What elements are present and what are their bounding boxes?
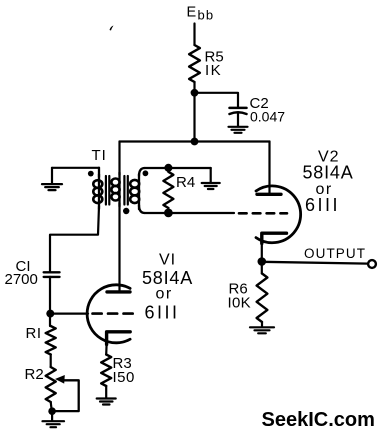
capacitor C1 — [44, 271, 60, 273]
ground below R6 — [250, 326, 274, 328]
node junction feed bus — [191, 138, 199, 146]
wire right winding bottom to V2 grid — [145, 212, 234, 214]
T1 left winding polarity dot — [88, 171, 94, 177]
node grid junction — [46, 310, 54, 318]
V2 cathode — [262, 233, 287, 243]
potentiometer R2 — [46, 367, 56, 402]
ground below R3 — [97, 397, 116, 399]
svg-text:E: E — [187, 5, 197, 21]
R2 wiper arrow — [52, 380, 79, 411]
svg-text:or: or — [156, 286, 173, 303]
wire V1 cathode to R3 — [105, 345, 108, 355]
V1 cathode — [107, 332, 131, 345]
svg-text:58I4A: 58I4A — [303, 163, 354, 183]
T1 right winding polarity dot — [143, 170, 149, 176]
resistor R1 — [46, 326, 56, 355]
svg-text:I50: I50 — [113, 369, 135, 386]
svg-text:RI: RI — [26, 325, 42, 342]
resistor R5 — [189, 45, 200, 82]
stray tick mark — [110, 26, 114, 31]
svg-text:VI: VI — [159, 252, 176, 269]
op V2 envelope — [256, 186, 301, 243]
svg-text:I0K: I0K — [228, 295, 251, 312]
terminal OUTPUT — [368, 260, 376, 268]
wire bus down to V2 plate — [268, 142, 270, 194]
ground right of R4 — [210, 168, 212, 183]
wire C1 to grid junction — [49, 277, 51, 326]
svg-text:bb: bb — [198, 8, 215, 23]
ground below C2 — [229, 126, 248, 128]
wire feed bus horizontal — [120, 140, 270, 142]
wire bus down to T1 primary — [118, 142, 120, 176]
wire R5 to junction — [193, 82, 195, 142]
wire R1 to R2 — [50, 355, 52, 368]
wire V2 cathode down — [261, 244, 263, 274]
svg-text:R4: R4 — [176, 174, 195, 191]
V1 plate — [107, 290, 130, 293]
T1 left secondary winding — [98, 168, 100, 177]
wire right winding top to ground — [145, 167, 211, 169]
svg-text:IK: IK — [205, 62, 222, 79]
V2 plate — [257, 193, 281, 196]
svg-text:2700: 2700 — [5, 271, 38, 288]
svg-text:OUTPUT: OUTPUT — [304, 246, 366, 261]
node cathode/output junction — [258, 257, 267, 266]
T1 primary winding — [118, 173, 120, 207]
node R4 top junction — [164, 164, 172, 172]
resistor R4 — [163, 172, 173, 208]
resistor R6 — [257, 274, 268, 323]
V2 grid (dashed) — [239, 212, 287, 215]
ground at T1 left — [51, 168, 53, 184]
V1 grid (dashed) — [93, 312, 135, 315]
svg-text:6III: 6III — [145, 302, 180, 322]
wire R2 to bottom junction — [51, 402, 52, 411]
svg-text:6III: 6III — [305, 195, 340, 215]
T1 primary polarity dot — [123, 208, 129, 214]
wire output — [262, 262, 368, 264]
node R2 bottom junction — [48, 407, 56, 415]
T1 core laminations — [105, 176, 107, 205]
op V1 envelope — [87, 285, 130, 343]
svg-text:TI: TI — [92, 147, 107, 164]
wire left winding to ground — [52, 167, 99, 169]
T1 right secondary winding — [139, 168, 145, 176]
capacitor C2 — [230, 107, 247, 110]
node junction below R5 — [191, 89, 199, 97]
ground below R2 — [51, 411, 53, 421]
wire T1 primary to V1 plate — [118, 203, 120, 292]
wire Ebb to R5 — [193, 24, 195, 46]
svg-text:R2: R2 — [25, 366, 44, 383]
node R4 bottom junction — [164, 209, 173, 218]
svg-text:0.047: 0.047 — [250, 109, 285, 125]
wire junction to V1 grid — [50, 313, 88, 315]
wire junction to C2 — [195, 93, 239, 107]
svg-text:SeekIC.com: SeekIC.com — [262, 409, 375, 431]
resistor R3 — [101, 355, 111, 387]
